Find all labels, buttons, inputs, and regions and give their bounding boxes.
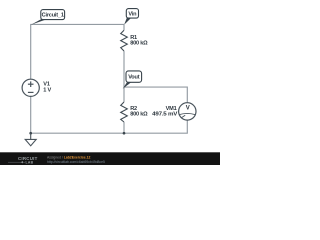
junction dot at ground node bbox=[29, 132, 32, 135]
wire: V1 bottom, along bottom, up to VM1 bottom bbox=[31, 97, 188, 134]
node label Vin bbox=[124, 9, 138, 25]
svg-text:V: V bbox=[186, 105, 190, 111]
label R2 value bbox=[130, 106, 148, 118]
wire: R1 bottom to Vout node bbox=[123, 51, 125, 87]
svg-text:Circuit_1: Circuit_1 bbox=[42, 13, 64, 19]
wire: Vin node down to R1 top bbox=[123, 24, 125, 30]
svg-text:1 V: 1 V bbox=[43, 88, 51, 94]
wire: Vout node right, up to VM1 top bbox=[124, 87, 187, 103]
voltmeter VM1 bbox=[179, 103, 196, 120]
resistor R1 bbox=[121, 30, 128, 51]
svg-text:497.5 mV: 497.5 mV bbox=[152, 112, 178, 118]
svg-text:Vout: Vout bbox=[128, 75, 140, 81]
svg-text:800 kΩ: 800 kΩ bbox=[130, 112, 148, 118]
svg-text:800 kΩ: 800 kΩ bbox=[130, 41, 148, 47]
footer bar bbox=[0, 152, 220, 165]
ground bbox=[25, 133, 36, 146]
voltage source V1 bbox=[22, 79, 39, 96]
svg-text:LAB: LAB bbox=[26, 161, 34, 165]
label VM1 value bbox=[152, 106, 178, 118]
footer CircuitLab logo bbox=[8, 156, 38, 165]
label R1 value bbox=[130, 35, 148, 47]
resistor R2 bbox=[121, 102, 128, 122]
svg-text:Vin: Vin bbox=[128, 11, 137, 17]
wire: Vin node left along top, down to V1 top bbox=[31, 24, 124, 79]
svg-text:http://circuitlab.com/c6ab59cb: http://circuitlab.com/c6ab59cb49d8ce5 bbox=[47, 160, 105, 164]
svg-text:Assigned / Lab2Exercise.12: Assigned / Lab2Exercise.12 bbox=[47, 155, 90, 159]
node label Vout bbox=[123, 71, 142, 89]
node label Circuit_1 bbox=[31, 10, 65, 25]
wire: R2 bottom to bottom wire bbox=[123, 122, 125, 133]
junction dot at R2 bottom node bbox=[123, 132, 126, 135]
wire: Vout node down to R2 top bbox=[123, 87, 125, 102]
label V1 value bbox=[43, 82, 51, 94]
